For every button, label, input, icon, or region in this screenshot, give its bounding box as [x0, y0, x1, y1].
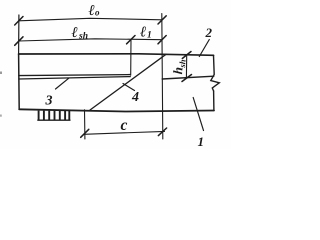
leader for 2 — [199, 40, 209, 57]
svg-text:c: c — [121, 117, 128, 134]
scan speck left edge — [0, 72, 2, 75]
svg-text:sh: sh — [177, 59, 188, 69]
extension line right (x=162.4) — [162, 14, 163, 140]
tick lsh left — [15, 37, 23, 46]
svg-text:ℓ: ℓ — [140, 24, 146, 40]
tick c left — [81, 129, 89, 137]
ledge double line upper — [19, 75, 131, 76]
support hatch pad — [37, 111, 70, 121]
leader for 1 — [193, 98, 203, 131]
extension line c left (x=84.7) — [84, 110, 86, 139]
inclined crack line 4 — [90, 54, 166, 110]
beam left edge — [18, 54, 21, 109]
shelf bottom line — [162, 76, 214, 79]
dimension line hsh — [185, 56, 187, 79]
leader for 4 — [123, 84, 135, 91]
svg-text:4: 4 — [131, 90, 139, 105]
tick l1 right — [158, 36, 166, 44]
dimension line c — [84, 131, 165, 134]
tick l0 left — [15, 17, 23, 26]
ledge double line lower — [19, 77, 131, 79]
svg-text:ℓ: ℓ — [89, 3, 95, 19]
tick l0 right — [158, 16, 166, 24]
label l1 — [140, 24, 152, 40]
dimension line lsh/l1 — [19, 39, 162, 41]
beam bottom edge — [19, 109, 214, 111]
tick lsh/l1 mid — [127, 36, 135, 44]
extension line mid (x=131) — [130, 40, 132, 76]
tick c right — [158, 128, 166, 136]
beam top edge — [19, 54, 214, 56]
svg-text:o: o — [95, 7, 100, 17]
beam right edge upper with break — [211, 55, 220, 91]
svg-text:3: 3 — [45, 94, 53, 109]
svg-text:ℓ: ℓ — [72, 25, 78, 41]
svg-text:2: 2 — [205, 25, 213, 40]
svg-text:sh: sh — [78, 31, 88, 41]
tick hsh bottom — [182, 75, 192, 82]
label hsh rotated — [170, 58, 188, 74]
tick hsh top — [182, 52, 191, 59]
svg-text:1: 1 — [198, 134, 205, 149]
svg-text:1: 1 — [147, 31, 152, 41]
extension line left (x=18.8) — [18, 15, 20, 54]
leader for 3 — [56, 78, 69, 89]
scan speck lower left edge — [0, 115, 2, 117]
label lsh — [72, 25, 88, 41]
beam right edge lower — [213, 91, 215, 111]
dimension line l0 — [19, 18, 162, 21]
label l0 — [89, 3, 101, 19]
